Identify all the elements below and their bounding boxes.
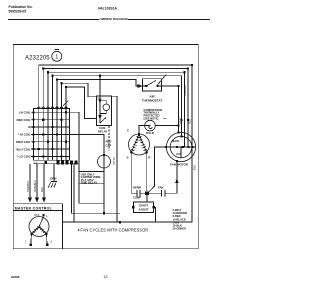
relay switch blade (100, 118, 106, 124)
matrix column entry terminals (38, 107, 68, 109)
svg-text:S: S (127, 156, 129, 160)
svg-text:13: 13 (104, 275, 108, 279)
svg-text:PNK/BLK: PNK/BLK (183, 84, 187, 96)
rotary switch lower terminal wires (31, 234, 47, 244)
svg-text:A232205: A232205 (25, 55, 50, 61)
svg-text:HI: HI (28, 125, 31, 129)
header rule (8, 19, 210, 21)
svg-text:BLK: BLK (40, 187, 44, 192)
start box side terminals (132, 206, 155, 208)
compressor S wire (131, 153, 137, 193)
wire run 6 (col 61.5 to relay upper input) (62, 83, 97, 108)
svg-text:BLU: BLU (188, 119, 192, 124)
junction dot relay wire at y222 (119, 221, 121, 223)
wire row1 stub to note box (70, 112, 80, 171)
matrix row wires (31, 112, 70, 156)
svg-text:MASTER CONTROL: MASTER CONTROL (15, 206, 53, 210)
svg-text:THERMOSTAT: THERMOSTAT (142, 99, 163, 103)
ground symbol (48, 181, 57, 187)
motor left wire to cap junction (149, 147, 167, 192)
svg-text:RED: RED (106, 140, 112, 144)
thermostat label (142, 95, 163, 103)
compressor R wire (146, 153, 148, 191)
thermostat terminals (145, 85, 158, 87)
herm cap labels (133, 186, 142, 200)
relay internal wiring (100, 96, 106, 123)
relay box label (98, 126, 108, 133)
bottom loop wire y213 (72, 212, 121, 214)
svg-text:LN COIL: LN COIL (19, 111, 31, 115)
cap common junction (145, 192, 149, 196)
compressor terminal labels (127, 129, 152, 160)
switch contact matrix box (34, 109, 70, 161)
svg-text:(SEE NOTE): (SEE NOTE) (144, 117, 159, 121)
rotary switch left winding (32, 227, 40, 235)
wire run 5 (col 57 to thermostat input) (57, 79, 138, 108)
wire color legend (173, 208, 187, 231)
junction dot plug wire at bottom loop (103, 212, 105, 214)
rotary switch header band (13, 210, 62, 212)
ground wire (53, 164, 55, 182)
relay coil circle (103, 104, 110, 111)
matrix column wires (39, 109, 66, 161)
relay internal arrows (98, 99, 101, 119)
wire labels near dashed link (106, 140, 112, 148)
wire run 7 (col 66 to relay lower input) (66, 87, 97, 119)
wire relay box top drop (99, 76, 101, 96)
start box stub to bottom loop (154, 207, 156, 222)
svg-text:AUX: AUX (176, 152, 182, 156)
rotary switch arm end dots (30, 233, 47, 235)
fan motor outer circle (166, 132, 195, 161)
svg-text:RED COIL: RED COIL (16, 118, 31, 122)
junction dot at thermostat/overload (177, 125, 179, 127)
start assist box (146, 195, 148, 202)
wire run 2 (col 43.3 to x188 into fan motor) (43, 69, 188, 147)
svg-text:FAL103S1A: FAL103S1A (98, 6, 117, 10)
svg-text:PLUG: PLUG (112, 158, 116, 165)
matrix junction dots (32, 111, 67, 157)
plug circle (98, 155, 111, 168)
wire run 4 (col 52.4 to x181.5 to motor inner top) (52, 76, 181, 137)
wire to rotary switch 3 (43, 164, 45, 198)
svg-text:FAN MOTOR: FAN MOTOR (170, 162, 189, 166)
fan motor terminal dots (165, 119, 194, 148)
plug to bottom loop wire (103, 168, 105, 213)
wire to rotary switch 1 (29, 164, 31, 198)
svg-text:OVLD: OVLD (146, 131, 154, 135)
svg-text:GRN: GRN (50, 176, 56, 180)
matrix row labels (15, 111, 31, 159)
connector strip below matrix (34, 163, 80, 165)
overload left wire to compressor (139, 126, 145, 135)
power cord wires down from connector (72, 164, 75, 222)
svg-text:MED COIL: MED COIL (16, 140, 31, 144)
svg-text:20-ORNGE: 20-ORNGE (173, 227, 187, 231)
compressor note text block (144, 108, 163, 121)
svg-text:RELAY: RELAY (98, 130, 108, 134)
svg-text:WHT: WHT (179, 118, 183, 124)
wire run 1 (col 38.8 to right side x192, bottom loop y222) (39, 65, 192, 222)
rotary switch circle (29, 217, 49, 237)
rotary switch terminals (25, 214, 53, 246)
fan relay box (97, 96, 112, 126)
plug feed wire from switch row (70, 134, 105, 155)
fan motor aux wire to capacitor (165, 161, 177, 193)
svg-text:L1: L1 (34, 160, 38, 164)
rotary switch top contact (39, 217, 44, 227)
note box divider (79, 183, 104, 185)
herm capacitor (137, 190, 146, 197)
thermostat input arrow (138, 84, 143, 88)
down arrows into rotary switch (28, 197, 46, 202)
compressor terminal dots (130, 133, 147, 153)
svg-text:ASSIST: ASSIST (138, 207, 148, 211)
fan motor winding labels (172, 139, 182, 156)
rotated wire labels right side (179, 84, 197, 170)
svg-text:FAN: FAN (158, 186, 163, 190)
svg-text:R: R (148, 156, 151, 160)
wire relay box to bottom loop (112, 96, 118, 222)
rotary switch right winding (39, 227, 47, 235)
svg-text:TIME DELAY: TIME DELAY (81, 181, 98, 185)
svg-text:1: 1 (55, 55, 58, 61)
wire to rotary switch 2 (36, 164, 38, 198)
thermostat blade (143, 75, 167, 87)
svg-text:COMP: COMP (133, 195, 141, 199)
dashed link below relay (108, 126, 110, 151)
overload right wire (155, 125, 178, 127)
svg-text:✦FAN CYCLES WITH COMPRESSOR: ✦FAN CYCLES WITH COMPRESSOR (77, 228, 148, 233)
aux wire arrow (175, 179, 179, 183)
svg-text:5995239-05: 5995239-05 (9, 9, 27, 13)
header publication number text (9, 5, 33, 13)
svg-text:C: C (127, 129, 130, 133)
wire run 3 (col 47.9 to x184.5 into fan motor) (48, 72, 185, 147)
revision circle 1 (52, 51, 62, 61)
svg-text:WIRING DIAGRAM: WIRING DIAGRAM (101, 17, 129, 21)
svg-text:GM98: GM98 (11, 275, 20, 279)
compressor motor circle (129, 134, 150, 155)
arrow tick into column 66 (63, 100, 68, 105)
junction dots on wire bends (42, 64, 193, 88)
line-cord note box (79, 172, 104, 204)
rotary switch box (13, 204, 62, 249)
svg-text:* HI COIL: * HI COIL (18, 133, 31, 137)
svg-text:PNK/BLK: PNK/BLK (26, 180, 30, 192)
thermostat output wire (162, 86, 179, 132)
svg-text:*BLU COIL: *BLU COIL (15, 147, 31, 151)
svg-text:HERM: HERM (133, 186, 142, 190)
fan motor bottom terminal dot (176, 160, 178, 162)
dash marks right of note (163, 117, 167, 119)
overload protector OVLD (145, 120, 156, 131)
svg-text:ORN/BLK: ORN/BLK (33, 180, 37, 192)
svg-text:CAP: CAP (106, 143, 112, 147)
fan capacitor (149, 190, 165, 197)
fan motor internal stub (180, 147, 182, 158)
svg-text:* LO COIL: * LO COIL (17, 155, 31, 159)
thermostat output bend dot (177, 85, 179, 87)
fan motor chord wire (166, 146, 195, 148)
svg-text:MAIN: MAIN (172, 139, 179, 143)
svg-text:BLK: BLK (193, 165, 197, 170)
compressor windings (131, 134, 146, 152)
air thermostat box (143, 79, 162, 91)
fan motor inner circle (170, 136, 192, 158)
diagram frame (13, 45, 198, 249)
rotated wire labels left (26, 180, 44, 192)
